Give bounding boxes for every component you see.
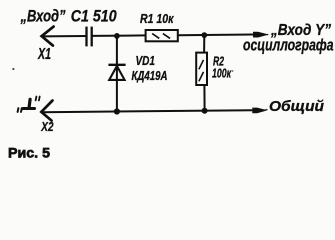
node: junction diode bottom: [114, 108, 120, 114]
node: junction at R2 top: [201, 32, 207, 38]
wire bottom rail: [41, 110, 252, 112]
svg-text:осциллографа: осциллографа: [243, 35, 334, 54]
svg-text:VD1: VD1: [136, 54, 156, 68]
svg-text:„Вход”: „Вход”: [20, 6, 66, 25]
wire top: X1 to C1: [42, 35, 87, 37]
connector X1 arrow: [42, 27, 54, 46]
connector X2 arrow: [41, 101, 52, 121]
arrow to oscilloscope Y input: [253, 32, 267, 38]
svg-text:Общий: Общий: [269, 98, 324, 115]
svg-text:100к: 100к: [212, 65, 232, 80]
svg-text:С1 510: С1 510: [71, 6, 117, 25]
arrow to common: [252, 108, 266, 114]
node: junction R2 bottom: [202, 108, 208, 114]
resistor R2: [196, 53, 207, 85]
svg-text:R1 10к: R1 10к: [140, 11, 175, 26]
svg-text:Рис. 5: Рис. 5: [8, 145, 50, 161]
wire: R1 to output arrow: [178, 34, 253, 37]
svg-text:КД419А: КД419А: [132, 68, 168, 83]
wire: diode branch vertical: [116, 36, 118, 112]
wire: R2 branch bottom: [203, 85, 205, 111]
node: junction at diode top: [114, 33, 120, 39]
wire: R2 branch top: [203, 35, 205, 53]
svg-text:Х2: Х2: [41, 119, 55, 134]
capacitor C1: [87, 27, 92, 47]
diode VD1: [108, 64, 125, 66]
label ground symbol with quotes: [18, 97, 40, 112]
svg-text:Х1: Х1: [37, 46, 51, 63]
paper speck: [12, 68, 14, 70]
wire: C1 to R1: [92, 34, 146, 37]
resistor R1: [146, 30, 178, 41]
